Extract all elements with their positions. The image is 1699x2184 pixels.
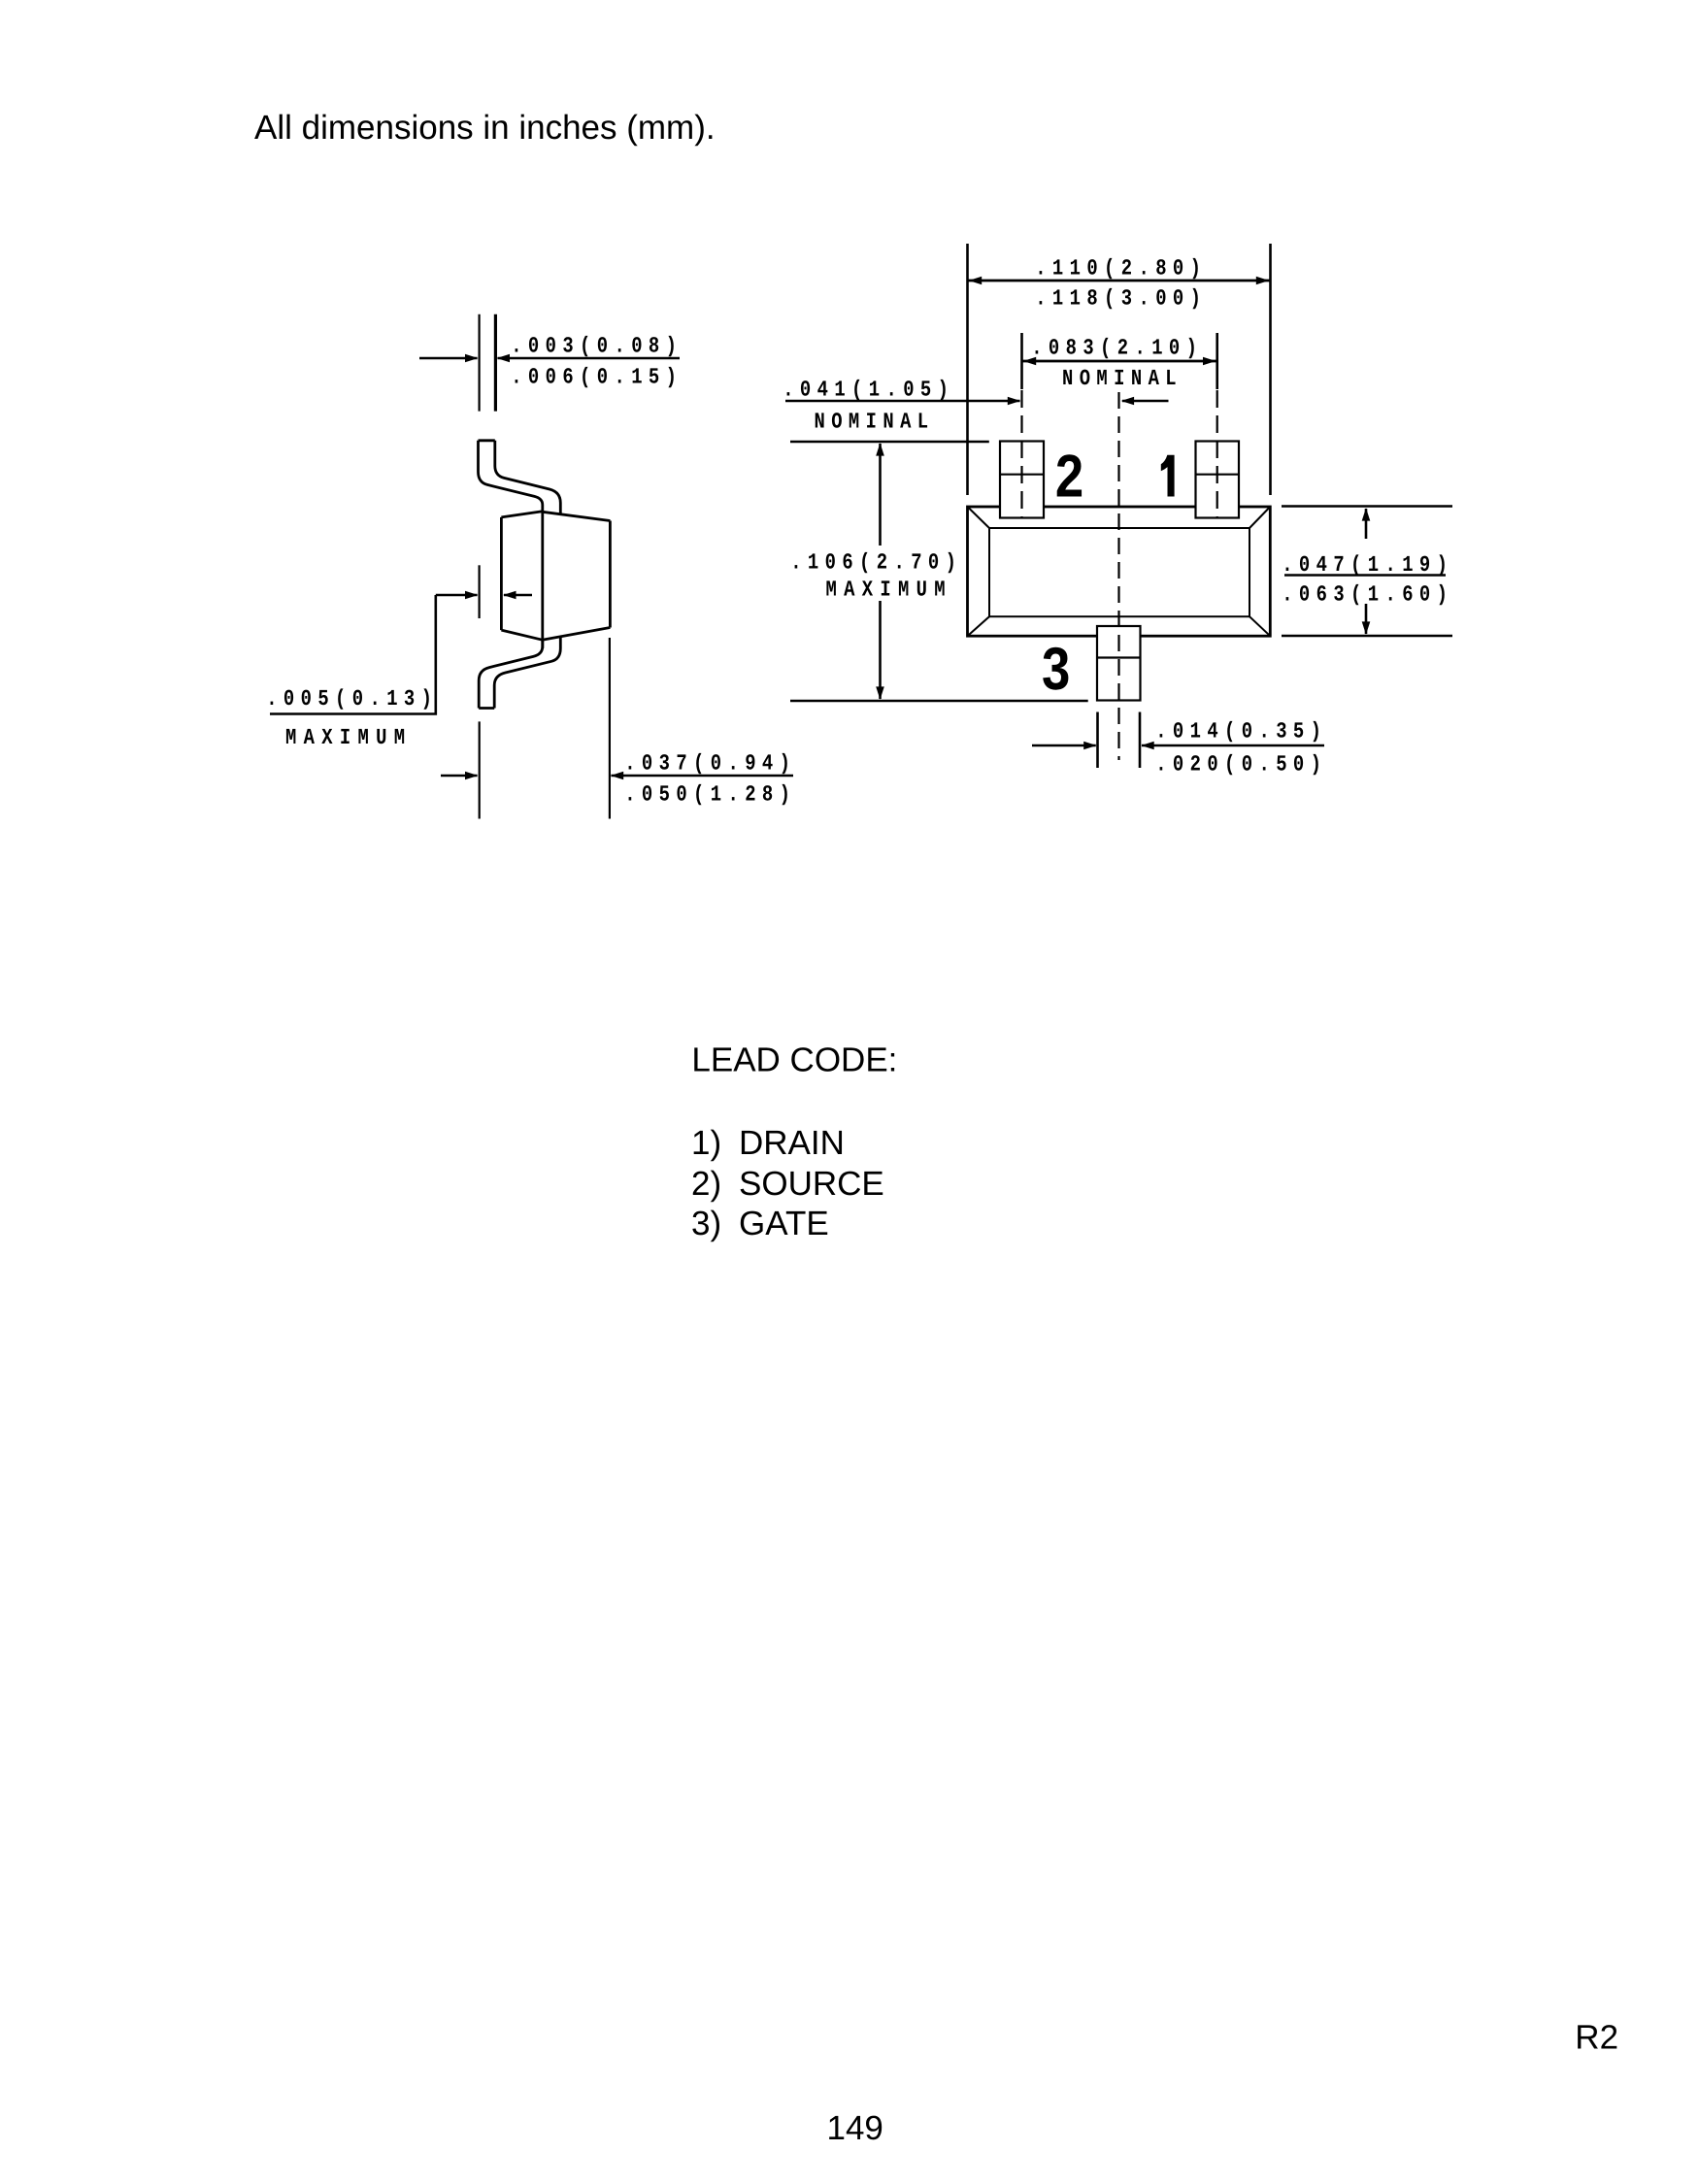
item 3 GATE xyxy=(691,1205,829,1242)
leader line for .005 label xyxy=(270,595,436,714)
tick line: lead standoff reference xyxy=(479,565,481,618)
svg-text:MAXIMUM: MAXIMUM xyxy=(826,577,952,602)
svg-text:NOMINAL: NOMINAL xyxy=(815,409,935,434)
revision mark R2 xyxy=(1575,2019,1618,2057)
svg-text:.106(2.70): .106(2.70) xyxy=(790,549,962,575)
svg-text:.006(0.15): .006(0.15) xyxy=(511,365,683,390)
value label .047(1.19) xyxy=(1282,552,1453,578)
extension line: body back edge xyxy=(609,638,611,819)
package body (side view) xyxy=(501,512,610,641)
value label .110(2.80) xyxy=(1035,256,1207,281)
svg-text:149: 149 xyxy=(827,2109,883,2147)
value label .006(0.15) xyxy=(511,365,683,390)
svg-text:.110(2.80): .110(2.80) xyxy=(1035,256,1207,281)
dimension arrow for .037 left xyxy=(441,772,478,780)
extension line: lead 2 center xyxy=(1020,333,1023,389)
label MAXIMUM (side view) xyxy=(285,725,412,750)
svg-text:.003(0.08): .003(0.08) xyxy=(511,334,683,359)
dimension arrow for .037 right with bar xyxy=(611,772,793,780)
svg-text:.118(3.00): .118(3.00) xyxy=(1035,285,1207,311)
svg-text:.005(0.13): .005(0.13) xyxy=(266,686,438,711)
svg-text:LEAD CODE:: LEAD CODE: xyxy=(691,1041,897,1078)
dashed centerline lead 1 xyxy=(1216,390,1218,517)
up arrow (.047) xyxy=(1362,508,1371,539)
value label .050(1.28) xyxy=(624,782,796,808)
label NOMINAL (.041) xyxy=(815,409,935,434)
lower lead (gull wing) xyxy=(479,637,560,709)
top reference line (.106) xyxy=(790,441,989,444)
extension line: lead foot left xyxy=(479,721,481,818)
dimension arrow for .014 left xyxy=(1032,742,1097,750)
reference line: body bottom right (.047) xyxy=(1282,635,1452,638)
extension line: lead thickness left xyxy=(479,314,481,412)
dimension arrow for .005 right xyxy=(503,591,532,600)
svg-text:.037(0.94): .037(0.94) xyxy=(624,751,796,777)
lead 1 rectangle xyxy=(1196,442,1240,518)
svg-text:.020(0.50): .020(0.50) xyxy=(1155,752,1327,778)
note: all dimensions in inches xyxy=(254,109,716,147)
value label .005(0.13) xyxy=(266,686,438,711)
heading LEAD CODE xyxy=(691,1041,897,1078)
label MAXIMUM (.106) xyxy=(826,577,952,602)
item 1 DRAIN xyxy=(691,1124,845,1162)
dimension arrow for .005 left xyxy=(436,591,479,600)
value label .014(0.35) xyxy=(1155,719,1327,745)
item 2 SOURCE xyxy=(691,1165,884,1203)
svg-text:3: 3 xyxy=(1042,636,1070,703)
value label .063(1.60) xyxy=(1282,582,1453,608)
svg-text:.050(1.28): .050(1.28) xyxy=(624,782,796,808)
svg-text:.063(1.60): .063(1.60) xyxy=(1282,582,1453,608)
svg-text:All dimensions in inches (mm).: All dimensions in inches (mm). xyxy=(254,109,716,147)
dashed centerline lead 2 xyxy=(1020,390,1022,517)
value label .106(2.70) xyxy=(790,549,962,575)
arrow to package centerline (.041) xyxy=(1121,397,1169,406)
lead 3 rectangle xyxy=(1097,626,1141,701)
svg-text:NOMINAL: NOMINAL xyxy=(1062,366,1183,391)
svg-text:3)GATE: 3)GATE xyxy=(691,1205,829,1242)
extension line: lead thickness right xyxy=(494,314,497,412)
value label .118(3.00) xyxy=(1035,285,1207,311)
value label .041(1.05) xyxy=(783,377,954,402)
svg-text:R2: R2 xyxy=(1575,2019,1618,2057)
value label .003(0.08) xyxy=(511,334,683,359)
svg-text:2)SOURCE: 2)SOURCE xyxy=(691,1165,884,1203)
value label .037(0.94) xyxy=(624,751,796,777)
pin number 3 xyxy=(1042,636,1070,703)
dimension line .110/.118 xyxy=(969,277,1270,285)
pin number 1 xyxy=(1161,455,1175,497)
dimension arrow for .014 right with bar xyxy=(1141,742,1324,750)
reference line: body top right (.047) xyxy=(1282,505,1452,508)
dimension arrow left of lead thickness xyxy=(419,354,478,363)
package body outer rectangle (top view) xyxy=(968,507,1271,636)
upper lead (gull wing) xyxy=(479,441,561,648)
extension line: body width left xyxy=(966,244,969,495)
extension line: lead 3 left xyxy=(1096,712,1099,769)
svg-text:.041(1.05): .041(1.05) xyxy=(783,377,954,402)
dimension line .083 xyxy=(1023,357,1216,366)
dimension arrow right of lead thickness with leader bar xyxy=(497,354,680,363)
package body inner bevel rectangle xyxy=(989,528,1249,616)
value label .020(0.50) xyxy=(1155,752,1327,778)
svg-text:.047(1.19): .047(1.19) xyxy=(1282,552,1453,578)
extension line: body width right xyxy=(1269,244,1272,495)
svg-text:.014(0.35): .014(0.35) xyxy=(1155,719,1327,745)
svg-text:1)DRAIN: 1)DRAIN xyxy=(691,1124,845,1162)
fraction bar .047/.063 xyxy=(1284,574,1446,577)
bottom reference line (.106) xyxy=(790,700,1088,703)
page number 149 xyxy=(827,2109,883,2147)
label NOMINAL (lead pitch) xyxy=(1062,366,1183,391)
extension line: lead 1 center xyxy=(1216,333,1218,389)
svg-text:MAXIMUM: MAXIMUM xyxy=(285,725,412,750)
svg-text:2: 2 xyxy=(1055,444,1083,511)
lead 2 rectangle xyxy=(1000,442,1044,518)
svg-text:.083(2.10): .083(2.10) xyxy=(1031,335,1203,360)
bevel corner diagonals xyxy=(968,507,1271,636)
extension line: lead 3 right xyxy=(1139,712,1142,769)
vertical dimension .106 with arrows xyxy=(876,443,884,700)
value label .083(2.10) xyxy=(1031,335,1203,360)
leader line .041 with arrow to lead 2 centerline xyxy=(785,397,1020,406)
down arrow (.047) xyxy=(1362,604,1371,635)
dashed package centerline xyxy=(1117,392,1119,760)
pin number 2 xyxy=(1055,444,1083,511)
